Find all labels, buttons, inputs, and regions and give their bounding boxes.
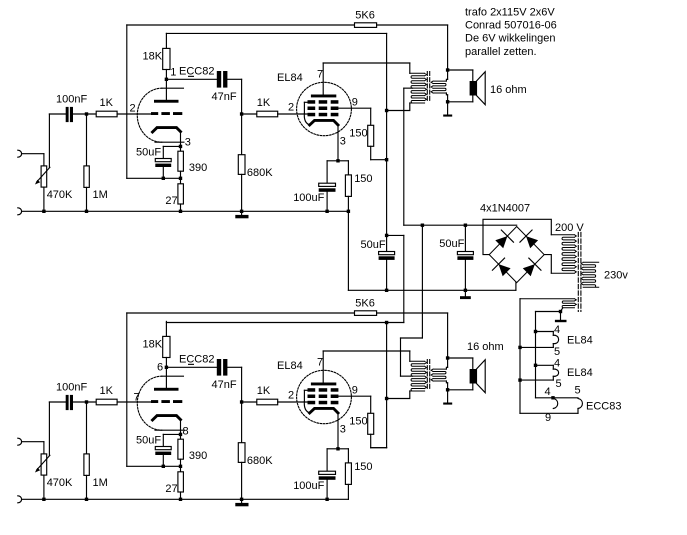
svg-text:3: 3 — [185, 136, 191, 148]
svg-text:7: 7 — [317, 69, 323, 81]
svg-text:Conrad 507016-06: Conrad 507016-06 — [465, 20, 557, 32]
svg-text:5: 5 — [556, 378, 562, 390]
svg-text:EL84: EL84 — [277, 72, 303, 84]
svg-text:47nF: 47nF — [212, 91, 237, 103]
svg-text:7: 7 — [134, 392, 140, 404]
svg-text:150: 150 — [349, 416, 367, 428]
svg-text:18K: 18K — [143, 51, 163, 63]
svg-text:470K: 470K — [47, 189, 73, 201]
svg-text:680K: 680K — [247, 455, 273, 467]
svg-text:6: 6 — [157, 362, 163, 374]
svg-text:ECC82: ECC82 — [179, 66, 214, 78]
svg-text:9: 9 — [545, 412, 551, 424]
svg-text:16 ohm: 16 ohm — [467, 341, 504, 353]
svg-text:50uF: 50uF — [361, 239, 386, 251]
svg-text:47nF: 47nF — [212, 379, 237, 391]
svg-text:EL84: EL84 — [567, 367, 593, 379]
svg-text:27: 27 — [165, 483, 177, 495]
svg-text:390: 390 — [189, 162, 207, 174]
svg-text:9: 9 — [352, 97, 358, 109]
svg-text:trafo 2x115V 2x6V: trafo 2x115V 2x6V — [465, 7, 555, 19]
svg-text:8: 8 — [183, 426, 189, 438]
svg-text:100nF: 100nF — [56, 382, 87, 394]
svg-text:150: 150 — [349, 128, 367, 140]
svg-text:EL84: EL84 — [567, 335, 593, 347]
svg-text:2: 2 — [130, 103, 136, 115]
svg-text:470K: 470K — [47, 477, 73, 489]
svg-text:EL84: EL84 — [277, 360, 303, 372]
svg-text:4x1N4007: 4x1N4007 — [480, 203, 530, 215]
svg-text:1K: 1K — [100, 385, 114, 397]
svg-text:3: 3 — [340, 135, 346, 147]
svg-text:390: 390 — [189, 450, 207, 462]
svg-text:5K6: 5K6 — [355, 297, 375, 309]
svg-text:1K: 1K — [257, 385, 271, 397]
svg-text:ECC82: ECC82 — [179, 354, 214, 366]
svg-text:100uF: 100uF — [293, 192, 324, 204]
svg-text:1M: 1M — [93, 477, 108, 489]
svg-text:150: 150 — [354, 461, 372, 473]
svg-text:2: 2 — [288, 102, 294, 114]
svg-text:4: 4 — [554, 324, 560, 336]
svg-text:5: 5 — [575, 385, 581, 397]
svg-text:1: 1 — [170, 67, 176, 79]
svg-text:230v: 230v — [604, 270, 628, 282]
svg-text:50uF: 50uF — [136, 435, 161, 447]
svg-text:200 V: 200 V — [555, 222, 584, 234]
svg-text:50uF: 50uF — [439, 238, 464, 250]
svg-text:7: 7 — [317, 357, 323, 369]
svg-text:3: 3 — [340, 423, 346, 435]
svg-text:16 ohm: 16 ohm — [490, 84, 527, 96]
svg-text:2: 2 — [288, 390, 294, 402]
svg-text:parallel zetten.: parallel zetten. — [465, 46, 537, 58]
svg-text:27: 27 — [165, 195, 177, 207]
svg-text:680K: 680K — [247, 167, 273, 179]
svg-text:100nF: 100nF — [56, 94, 87, 106]
svg-text:De 6V wikkelingen: De 6V wikkelingen — [465, 33, 556, 45]
svg-text:100uF: 100uF — [293, 480, 324, 492]
svg-text:4: 4 — [554, 358, 560, 370]
svg-text:1K: 1K — [100, 97, 114, 109]
svg-text:ECC83: ECC83 — [586, 401, 621, 413]
svg-text:18K: 18K — [143, 339, 163, 351]
svg-text:150: 150 — [354, 173, 372, 185]
svg-text:1K: 1K — [257, 97, 271, 109]
svg-text:4: 4 — [545, 386, 551, 398]
svg-text:9: 9 — [352, 385, 358, 397]
svg-text:50uF: 50uF — [136, 147, 161, 159]
svg-text:5: 5 — [554, 346, 560, 358]
svg-text:1M: 1M — [93, 189, 108, 201]
svg-text:5K6: 5K6 — [355, 9, 375, 21]
